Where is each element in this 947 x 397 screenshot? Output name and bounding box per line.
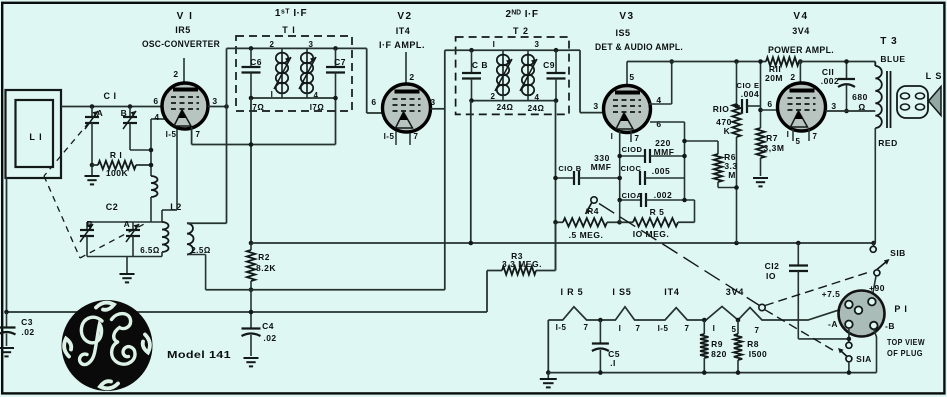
node C4 junction bbox=[249, 310, 254, 315]
node B junction bbox=[149, 148, 154, 153]
dashed gang linkage left bbox=[44, 176, 80, 258]
svg-text:I: I bbox=[787, 130, 790, 139]
wire V2 plate bbox=[431, 108, 445, 110]
node V1 pin3 junction bbox=[224, 104, 229, 109]
svg-text:C2: C2 bbox=[106, 202, 119, 212]
svg-text:I: I bbox=[713, 324, 716, 333]
svg-text:.I: .I bbox=[610, 358, 616, 368]
svg-text:CIOC: CIOC bbox=[621, 164, 642, 173]
wire T1 top rail bbox=[227, 47, 367, 49]
GE logo script E lower bbox=[112, 342, 135, 364]
node C10B left bbox=[553, 176, 558, 181]
svg-text:680: 680 bbox=[852, 92, 868, 102]
svg-text:R8: R8 bbox=[747, 339, 759, 349]
svg-text:I·F AMPL.: I·F AMPL. bbox=[379, 40, 425, 50]
switch S1A bbox=[846, 342, 852, 348]
node T1 bottom right bbox=[333, 96, 338, 101]
node R2 top bbox=[249, 241, 254, 246]
GE logo curl east bbox=[143, 335, 150, 353]
wire V2 pin2 stub bbox=[405, 52, 407, 85]
svg-text:3.3 MEG.: 3.3 MEG. bbox=[502, 259, 542, 269]
svg-text:C7: C7 bbox=[334, 57, 346, 67]
svg-text:7: 7 bbox=[635, 134, 640, 143]
resistor R11 bbox=[766, 57, 799, 65]
wire osc vertical bbox=[226, 48, 228, 223]
svg-text:C3: C3 bbox=[21, 317, 33, 327]
GE logo script G bbox=[80, 317, 102, 364]
svg-text:3: 3 bbox=[831, 101, 836, 111]
GE logo disc bbox=[62, 300, 153, 391]
node R9 top bbox=[702, 318, 707, 323]
svg-text:OF PLUG: OF PLUG bbox=[887, 348, 923, 358]
capacitor C10B bbox=[556, 177, 575, 179]
wire antenna return vertical bbox=[6, 178, 8, 313]
capacitor C9 bbox=[555, 50, 557, 73]
svg-text:C4: C4 bbox=[262, 321, 274, 331]
svg-text:6.5Ω: 6.5Ω bbox=[140, 246, 160, 255]
svg-text:.02: .02 bbox=[21, 327, 34, 337]
svg-text:IO: IO bbox=[766, 271, 776, 281]
svg-text:2.5Ω: 2.5Ω bbox=[191, 246, 211, 255]
svg-text:V I: V I bbox=[177, 11, 194, 22]
node S1A bus bbox=[847, 370, 852, 375]
wire filament ground leg bbox=[547, 320, 549, 373]
wire V3 pin6 bbox=[650, 121, 685, 123]
wire A- bus bbox=[548, 372, 876, 374]
node C10C left bbox=[617, 176, 622, 181]
node R1 left bbox=[90, 163, 95, 168]
svg-text:100K: 100K bbox=[106, 168, 129, 178]
tube V4 3V4 power amplifier bbox=[778, 83, 826, 131]
svg-text:BLUE: BLUE bbox=[880, 54, 905, 64]
node C12 bus junction bbox=[796, 241, 801, 246]
svg-text:POWER AMPL.: POWER AMPL. bbox=[768, 45, 834, 55]
T2 secondary coil bbox=[527, 50, 529, 55]
wire filament string bbox=[548, 307, 845, 321]
svg-text:CI2: CI2 bbox=[765, 261, 780, 271]
svg-text:7: 7 bbox=[584, 323, 589, 332]
svg-text:Model 141: Model 141 bbox=[167, 349, 231, 361]
svg-text:8.2K: 8.2K bbox=[256, 263, 276, 273]
svg-text:+7.5: +7.5 bbox=[822, 289, 841, 299]
wire V1 pin4 to osc coil bbox=[151, 118, 165, 120]
svg-text:6: 6 bbox=[656, 119, 661, 129]
capacitor C10D bbox=[620, 155, 645, 157]
svg-text:5: 5 bbox=[629, 72, 634, 82]
IF transformer T1 shield box bbox=[236, 36, 352, 111]
wire R4 junction leg bbox=[619, 200, 621, 222]
node C1-A bbox=[90, 104, 95, 109]
node T1 bottom left bbox=[249, 96, 254, 101]
node T2 C8 top bbox=[469, 48, 474, 53]
GE logo curl north bbox=[96, 303, 114, 310]
node R8 top bbox=[736, 318, 741, 323]
svg-text:L S: L S bbox=[926, 71, 943, 81]
wire T1 bottom to R2 bbox=[250, 98, 252, 243]
capacitor C10C bbox=[639, 171, 641, 185]
wire T2 to V3 grid bbox=[579, 50, 581, 112]
node R10 top bus bbox=[734, 59, 739, 64]
wire T2 secondary return drop bbox=[555, 101, 557, 271]
svg-text:24Ω: 24Ω bbox=[528, 104, 545, 113]
node T2 bottom right bbox=[554, 98, 559, 103]
svg-text:I-5: I-5 bbox=[556, 323, 567, 332]
plug pin -B bbox=[870, 322, 878, 330]
wire B- bus bbox=[7, 311, 488, 313]
svg-text:R9: R9 bbox=[711, 339, 723, 349]
svg-text:A: A bbox=[124, 219, 131, 229]
wire -A to S1A bbox=[848, 328, 850, 342]
svg-text:I: I bbox=[611, 132, 614, 141]
node R7 top bus bbox=[758, 59, 763, 64]
node C10D right bbox=[682, 154, 687, 159]
resistor R1 bbox=[92, 164, 98, 166]
svg-text:2: 2 bbox=[173, 69, 178, 79]
svg-text:3: 3 bbox=[535, 40, 540, 49]
wire T2 bottom rail bbox=[472, 100, 557, 102]
node R2 bottom bbox=[249, 288, 254, 293]
svg-text:3: 3 bbox=[593, 101, 598, 111]
svg-text:.002: .002 bbox=[821, 76, 840, 86]
ground below C1-A bbox=[91, 165, 93, 175]
GE logo curl south bbox=[100, 381, 118, 388]
svg-text:Ω: Ω bbox=[858, 102, 865, 112]
wire coil to C2 top rail bbox=[150, 197, 152, 222]
svg-text:CIOD: CIOD bbox=[622, 145, 643, 154]
svg-text:C9: C9 bbox=[543, 60, 555, 70]
output transformer T3 primary bbox=[874, 62, 876, 67]
node C10E left bbox=[734, 104, 739, 109]
svg-text:B: B bbox=[87, 219, 94, 229]
resistor R8 bbox=[737, 320, 739, 334]
node C10D left bbox=[617, 154, 622, 159]
trimmer capacitor C1-A bbox=[91, 107, 93, 118]
svg-text:V3: V3 bbox=[619, 11, 634, 22]
svg-text:I: I bbox=[619, 324, 622, 333]
capacitor C4 bbox=[242, 327, 261, 329]
svg-text:.004: .004 bbox=[741, 89, 760, 99]
loop antenna L1 outer bbox=[6, 90, 62, 178]
resistor R10 bbox=[736, 62, 738, 105]
wire C2 top rail bbox=[87, 221, 162, 223]
svg-text:R 5: R 5 bbox=[650, 207, 665, 217]
svg-text:7: 7 bbox=[755, 326, 760, 335]
T2 primary coil bbox=[502, 50, 504, 55]
dashed gang linkage lower bbox=[80, 223, 146, 258]
svg-text:820: 820 bbox=[711, 349, 727, 359]
node C10A left bbox=[617, 198, 622, 203]
node C5 top bbox=[598, 318, 603, 323]
wire T2 left vertical bbox=[444, 50, 446, 290]
T1 secondary coil bbox=[306, 48, 308, 53]
svg-text:R I: R I bbox=[110, 150, 122, 160]
tube V3 1S5 det audio bbox=[604, 86, 651, 133]
svg-text:I: I bbox=[493, 40, 496, 49]
svg-text:I-5: I-5 bbox=[384, 132, 395, 141]
svg-text:R2: R2 bbox=[258, 252, 270, 262]
svg-text:+90: +90 bbox=[869, 283, 885, 293]
svg-text:TOP VIEW: TOP VIEW bbox=[887, 337, 925, 347]
svg-text:6: 6 bbox=[767, 99, 772, 109]
svg-text:2: 2 bbox=[409, 72, 414, 82]
node R4 left bbox=[553, 220, 558, 225]
svg-text:M: M bbox=[728, 170, 736, 180]
speaker LS horn bbox=[929, 87, 942, 116]
linkage hub bbox=[759, 304, 765, 310]
resistor R3 bbox=[487, 270, 502, 272]
V3 pin7 tick bbox=[630, 131, 632, 142]
node V4 pin2 bus bbox=[798, 59, 803, 64]
node T2 B+ junction bbox=[469, 241, 474, 246]
plug pin -A bbox=[845, 321, 853, 329]
node V4 pin6 junction bbox=[758, 108, 763, 113]
resistor R6 bbox=[685, 140, 719, 142]
svg-text:R7: R7 bbox=[766, 133, 778, 143]
resistor R9 bbox=[703, 320, 705, 334]
svg-text:T 2: T 2 bbox=[513, 26, 529, 36]
svg-text:I-5: I-5 bbox=[658, 324, 669, 333]
switch S1B bbox=[873, 243, 875, 246]
node R10 bus junction bbox=[734, 241, 739, 246]
svg-text:1ˢᵀ I·F: 1ˢᵀ I·F bbox=[275, 8, 307, 19]
wire V1 pin5 to L2 bbox=[176, 129, 178, 210]
svg-text:CIO B: CIO B bbox=[558, 164, 581, 173]
svg-text:I500: I500 bbox=[749, 349, 768, 359]
wire antenna to V1 grid bbox=[61, 106, 162, 108]
svg-text:C6: C6 bbox=[250, 57, 262, 67]
T3 core bbox=[886, 71, 888, 128]
IF transformer T2 shield box bbox=[456, 37, 569, 114]
node R9 bottom bbox=[702, 370, 707, 375]
volume control R4 bbox=[556, 221, 564, 223]
svg-text:2ᴺᴰ I·F: 2ᴺᴰ I·F bbox=[506, 9, 539, 20]
svg-text:K: K bbox=[724, 126, 731, 136]
tube V2 1T4 IF amplifier bbox=[383, 84, 431, 132]
trimmer capacitor C1-B bbox=[129, 107, 131, 118]
svg-text:IS5: IS5 bbox=[615, 28, 630, 38]
ground below C2 bbox=[126, 257, 128, 274]
ground main bbox=[547, 373, 549, 378]
wire T1 to V2 grid bbox=[366, 48, 368, 113]
plug pin center bbox=[855, 306, 863, 314]
svg-text:CIOA: CIOA bbox=[622, 191, 643, 200]
wire AVC bus bbox=[206, 289, 445, 291]
svg-text:7: 7 bbox=[414, 132, 419, 141]
svg-text:RED: RED bbox=[878, 138, 897, 148]
svg-text:V2: V2 bbox=[397, 11, 412, 22]
node C1-B bbox=[128, 104, 133, 109]
svg-text:OSC-CONVERTER: OSC-CONVERTER bbox=[142, 39, 220, 49]
svg-text:3: 3 bbox=[430, 97, 435, 107]
capacitor C5 bbox=[599, 320, 601, 344]
svg-text:RIO: RIO bbox=[713, 104, 730, 114]
svg-text:MMF: MMF bbox=[654, 147, 675, 157]
node main ground bbox=[546, 370, 551, 375]
wire -B to bus bbox=[874, 329, 877, 372]
dashed linkage hub to S1B bbox=[765, 272, 871, 306]
svg-text:.002: .002 bbox=[654, 190, 673, 200]
dashed gang linkage upper bbox=[44, 114, 96, 176]
wire V3 pin4 bbox=[649, 103, 672, 105]
svg-text:IO MEG.: IO MEG. bbox=[633, 229, 670, 239]
node R6 bottom bbox=[734, 185, 739, 190]
svg-text:IT4: IT4 bbox=[396, 26, 411, 36]
wire R7 column bbox=[760, 62, 762, 129]
svg-text:I7Ω: I7Ω bbox=[250, 103, 265, 112]
svg-text:V4: V4 bbox=[793, 11, 808, 22]
wire V1 pin2 stub bbox=[183, 58, 185, 84]
svg-text:3V4: 3V4 bbox=[726, 287, 744, 297]
node R4 right bbox=[617, 220, 622, 225]
svg-text:-A: -A bbox=[828, 319, 838, 329]
svg-text:4: 4 bbox=[154, 112, 159, 122]
svg-text:3: 3 bbox=[212, 96, 217, 106]
node R1 right bbox=[149, 163, 154, 168]
node R8 bottom bbox=[736, 370, 741, 375]
node bus right end bbox=[871, 241, 876, 246]
node -A C12 junction bbox=[847, 337, 852, 342]
plug P1 body bbox=[839, 291, 885, 337]
node T1 C6 top bbox=[249, 46, 254, 51]
svg-text:I7Ω: I7Ω bbox=[310, 103, 325, 112]
V4 filament ticks bbox=[792, 129, 794, 141]
capacitor C3 bbox=[6, 312, 8, 328]
svg-text:IR5: IR5 bbox=[175, 25, 191, 35]
R4 wiper bbox=[591, 197, 597, 203]
wire audio grid vertical bbox=[684, 122, 686, 200]
svg-text:C I: C I bbox=[103, 91, 116, 101]
capacitor C12 bbox=[797, 243, 799, 266]
svg-text:5: 5 bbox=[796, 137, 801, 146]
resistor R5 bbox=[620, 221, 634, 223]
svg-text:I-5: I-5 bbox=[166, 130, 177, 139]
wire T2 top rail bbox=[445, 49, 569, 51]
svg-text:I R 5: I R 5 bbox=[560, 287, 583, 297]
V2 filament lead ticks bbox=[395, 131, 397, 145]
svg-text:C B: C B bbox=[472, 60, 488, 70]
node cathode crossing bbox=[249, 142, 254, 147]
wire V4 plate bbox=[826, 110, 876, 112]
node C10A mid bbox=[682, 198, 687, 203]
plug pin +90 bbox=[868, 298, 876, 306]
resistor R2 bbox=[250, 243, 252, 250]
wire top audio bus bbox=[627, 61, 766, 63]
trimmer capacitor C2-B bbox=[86, 222, 88, 230]
wire C10A right leg bbox=[694, 200, 696, 222]
node T2 C9 top bbox=[554, 48, 559, 53]
wire T1 bottom rail bbox=[251, 97, 336, 99]
tube V1 1R5 osc-converter bbox=[162, 83, 208, 129]
svg-text:6: 6 bbox=[153, 96, 158, 106]
svg-text:SIA: SIA bbox=[856, 354, 872, 364]
svg-text:2: 2 bbox=[790, 72, 795, 82]
ground below C4 bbox=[244, 357, 259, 359]
svg-text:T 3: T 3 bbox=[880, 36, 897, 47]
node C5 bottom bbox=[598, 370, 603, 375]
wire T2 primary B+ drop bbox=[470, 101, 472, 243]
dashed linkage hub to S1A bbox=[765, 310, 837, 353]
wire S1B to +90 bbox=[872, 276, 876, 298]
node T2 bottom left bbox=[469, 98, 474, 103]
capacitor C10E bbox=[737, 105, 741, 107]
svg-text:MMF: MMF bbox=[591, 162, 612, 172]
oscillator tickler coil 2.5 ohm bbox=[187, 222, 192, 224]
wire V3 pin5 stub bbox=[626, 62, 628, 87]
svg-text:.005: .005 bbox=[652, 166, 671, 176]
wire detector vertical bbox=[619, 131, 621, 222]
svg-text:6: 6 bbox=[371, 97, 376, 107]
wire tickler to B- bus bbox=[205, 255, 207, 290]
T1 primary coil bbox=[281, 48, 283, 53]
svg-text:24Ω: 24Ω bbox=[497, 103, 514, 112]
svg-text:L I: L I bbox=[29, 132, 42, 142]
wire V4 pin6 bbox=[761, 109, 778, 111]
ground below R7 bbox=[753, 177, 768, 179]
GE logo script E upper bbox=[112, 314, 131, 342]
svg-text:2: 2 bbox=[491, 92, 496, 101]
resistor R7 bbox=[756, 128, 764, 158]
capacitor C8 bbox=[471, 50, 473, 73]
capacitor C11 bbox=[846, 62, 848, 80]
svg-text:.02: .02 bbox=[263, 333, 276, 343]
node C11 top bbox=[844, 59, 849, 64]
wire V4 pin2 stub bbox=[799, 62, 801, 84]
svg-text:DET & AUDIO AMPL.: DET & AUDIO AMPL. bbox=[595, 42, 683, 52]
svg-text:I S5: I S5 bbox=[612, 287, 631, 297]
svg-text:5: 5 bbox=[732, 325, 737, 334]
svg-text:7: 7 bbox=[636, 324, 641, 333]
wire R2 to C4 bbox=[250, 290, 252, 329]
osc coupling coil bbox=[151, 176, 158, 197]
plug pin +7.5 bbox=[845, 301, 853, 309]
wire V1 pin3 bbox=[208, 106, 227, 108]
capacitor C6 bbox=[250, 48, 252, 67]
svg-text:IT4: IT4 bbox=[664, 287, 679, 297]
svg-text:7: 7 bbox=[196, 130, 201, 139]
wire top bus right bbox=[799, 61, 875, 63]
ground below C3 bbox=[0, 347, 14, 349]
svg-text:3V4: 3V4 bbox=[792, 26, 810, 36]
svg-text:T I: T I bbox=[282, 25, 296, 35]
node V3 pin4 top bus bbox=[669, 59, 674, 64]
wire S1A to bus bbox=[848, 362, 850, 373]
wire B+ bus bbox=[251, 242, 875, 244]
GE logo curl west bbox=[64, 339, 71, 357]
wire C2 bottom rail bbox=[87, 256, 162, 258]
svg-text:SIB: SIB bbox=[890, 248, 906, 258]
svg-text:A: A bbox=[97, 108, 104, 118]
svg-text:P I: P I bbox=[894, 304, 907, 314]
trimmer capacitor C2-A bbox=[132, 222, 134, 230]
svg-text:20M: 20M bbox=[765, 73, 783, 83]
capacitor C7 bbox=[335, 48, 337, 67]
svg-text:7: 7 bbox=[813, 132, 818, 141]
wire R3 to B- bus bbox=[486, 271, 488, 313]
node C11 bottom bbox=[844, 109, 849, 114]
svg-text:-B: -B bbox=[885, 321, 895, 331]
loop antenna L1 inner bbox=[16, 100, 54, 167]
wire V1 pin7 cathode return bbox=[191, 127, 193, 145]
node R6 top bbox=[682, 139, 687, 144]
svg-text:.5 MEG.: .5 MEG. bbox=[569, 230, 604, 240]
svg-text:B: B bbox=[121, 108, 128, 118]
svg-text:7: 7 bbox=[685, 324, 690, 333]
svg-text:3,3M: 3,3M bbox=[764, 143, 785, 153]
node C3 junction bbox=[4, 310, 9, 315]
oscillator coil L2 bbox=[161, 210, 163, 222]
svg-text:3: 3 bbox=[309, 40, 314, 49]
node T1 C7 top bbox=[333, 46, 338, 51]
